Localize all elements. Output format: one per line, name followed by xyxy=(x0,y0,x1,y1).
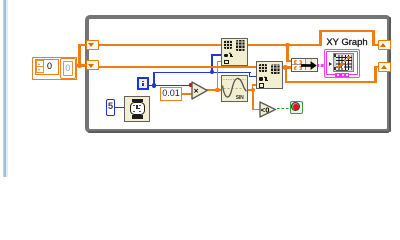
wire: blue i to multiply xyxy=(153,85,190,86)
right shift register 1 (up arrow) xyxy=(378,40,391,50)
svg-text:×: × xyxy=(193,85,198,95)
node: junction sine output xyxy=(251,88,256,93)
numeric constant 0.01 xyxy=(160,87,182,101)
while loop border xyxy=(85,15,391,133)
wire: magenta cluster dashed to XY graph xyxy=(317,64,325,67)
wire: blue jog down xyxy=(249,72,250,78)
wire: into right shift register 2 xyxy=(374,66,380,68)
wire: bridge down leg to right SR1 xyxy=(372,30,374,46)
array index value 0 xyxy=(45,60,58,73)
wire: insert-into-array 1 output xyxy=(247,44,322,46)
wire: bridge up leg over label xyxy=(319,30,321,46)
while loop shadow right xyxy=(389,17,391,132)
wire: blue up into insert-into-array 1 index xyxy=(211,54,212,72)
right shift register 2 (up arrow) xyxy=(378,62,391,72)
array element box xyxy=(60,58,76,79)
node: junction multiply output xyxy=(215,88,220,93)
sine function icon xyxy=(221,75,248,102)
left shift register 2 (down arrow) xyxy=(86,60,99,70)
node: blue junction near i xyxy=(152,83,156,87)
svg-text:SIN: SIN xyxy=(235,95,243,101)
wire: into left shift register 2 xyxy=(80,64,88,66)
less-than-zero node xyxy=(259,101,277,118)
graph glyph xyxy=(333,53,355,72)
wire: sine output down to less-than-zero xyxy=(252,89,254,110)
wire: green boolean dashed to stop terminal xyxy=(277,108,291,109)
node: junction on Y wire xyxy=(283,65,288,70)
wire: into right shift register 1 xyxy=(372,44,379,46)
wire: into left shift register 1 xyxy=(78,44,87,46)
numeric constant 5 xyxy=(106,99,116,116)
wire: Y array SR2 to insert-into-array 2 xyxy=(98,66,257,68)
wire: Y branch down leg xyxy=(285,67,287,83)
window edge stripe at far left xyxy=(3,0,4,177)
wire: junction up leg xyxy=(78,44,80,66)
array constant (initializer) outer frame xyxy=(32,57,77,80)
node: blue junction mid xyxy=(210,70,214,74)
wire: multiply output to sine xyxy=(206,89,222,91)
node: junction at array constant xyxy=(77,63,82,68)
loop condition stop terminal xyxy=(290,101,303,114)
svg-text:0: 0 xyxy=(265,106,269,115)
wire: X array branch down to bundle xyxy=(286,45,288,62)
wire: sine output xyxy=(247,89,254,91)
wire: blue i to junction xyxy=(148,85,155,86)
while loop shadow bottom xyxy=(88,131,389,133)
wire: blue right toward insert-into-array 2 xyxy=(212,72,251,73)
wire: branch into bundle top input xyxy=(286,60,292,62)
bundle node xyxy=(291,58,318,71)
magenta type strip xyxy=(335,73,350,77)
wire: bottom run to right SR2 xyxy=(285,81,377,83)
XY Graph label xyxy=(325,36,370,49)
wire: blue into insert-into-array 2 index xyxy=(249,76,257,77)
insert-into-array node 1 (X array) xyxy=(221,38,248,66)
array index spinner xyxy=(36,60,44,73)
wire: blue 5 to wait xyxy=(115,107,125,108)
wire: blue across to second junction xyxy=(153,72,212,73)
indicator arrow xyxy=(329,62,332,66)
wire: X array SR1 to insert-into-array 1 xyxy=(98,44,222,46)
wire: multiply output up to insert-into-array 1 element xyxy=(217,61,219,91)
iteration terminal i xyxy=(137,77,149,90)
coercion dot at multiply input xyxy=(189,83,192,86)
wire: sine output up to insert-into-array 2 element xyxy=(252,84,254,91)
left shift register 1 (down arrow) xyxy=(86,40,99,50)
wait (ms) icon xyxy=(124,96,150,122)
wire: up leg to right SR2 xyxy=(374,66,376,84)
wire: insert-into-array 2 output to bundle xyxy=(283,66,293,68)
multiply node xyxy=(191,81,209,100)
node: junction on X wire xyxy=(285,43,290,48)
insert-into-array node 2 (Y array) xyxy=(256,61,283,89)
XY Graph terminal xyxy=(324,49,360,78)
wire: blue up leg xyxy=(153,72,154,86)
array constant index box xyxy=(35,59,60,75)
wire: 0.01 to multiply xyxy=(182,93,193,95)
wire: bridge top across label xyxy=(319,30,375,32)
wire: array constant to junction xyxy=(77,64,82,66)
